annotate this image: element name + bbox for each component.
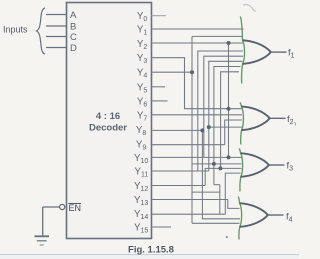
svg-text:Decoder: Decoder xyxy=(89,123,127,134)
svg-text:Fig. 1.15.8: Fig. 1.15.8 xyxy=(128,245,174,256)
svg-text:4 : 16: 4 : 16 xyxy=(96,111,120,122)
svg-text:D: D xyxy=(70,43,77,54)
svg-text:Inputs: Inputs xyxy=(3,25,28,35)
svg-text:EN: EN xyxy=(69,203,82,213)
svg-text:A: A xyxy=(70,10,77,21)
svg-text:C: C xyxy=(70,32,77,43)
svg-text:B: B xyxy=(70,22,76,33)
